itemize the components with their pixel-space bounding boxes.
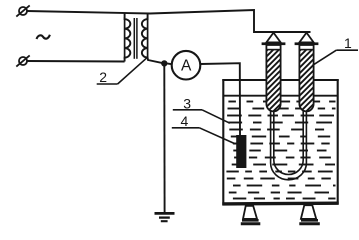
svg-text:1: 1: [344, 35, 352, 51]
svg-text:A: A: [181, 58, 192, 75]
svg-text:4: 4: [181, 113, 189, 129]
svg-text:2: 2: [99, 69, 107, 85]
